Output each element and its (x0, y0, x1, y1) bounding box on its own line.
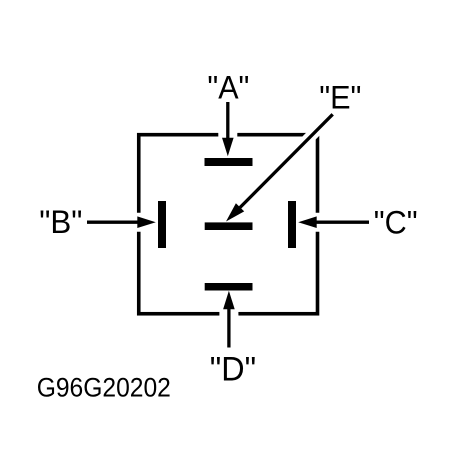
svg-text:"C": "C" (374, 204, 418, 240)
svg-text:"A": "A" (207, 70, 249, 106)
svg-text:"D": "D" (210, 350, 256, 388)
svg-text:"B": "B" (39, 204, 82, 240)
svg-text:G96G20202: G96G20202 (37, 373, 171, 403)
svg-text:"E": "E" (319, 80, 361, 116)
